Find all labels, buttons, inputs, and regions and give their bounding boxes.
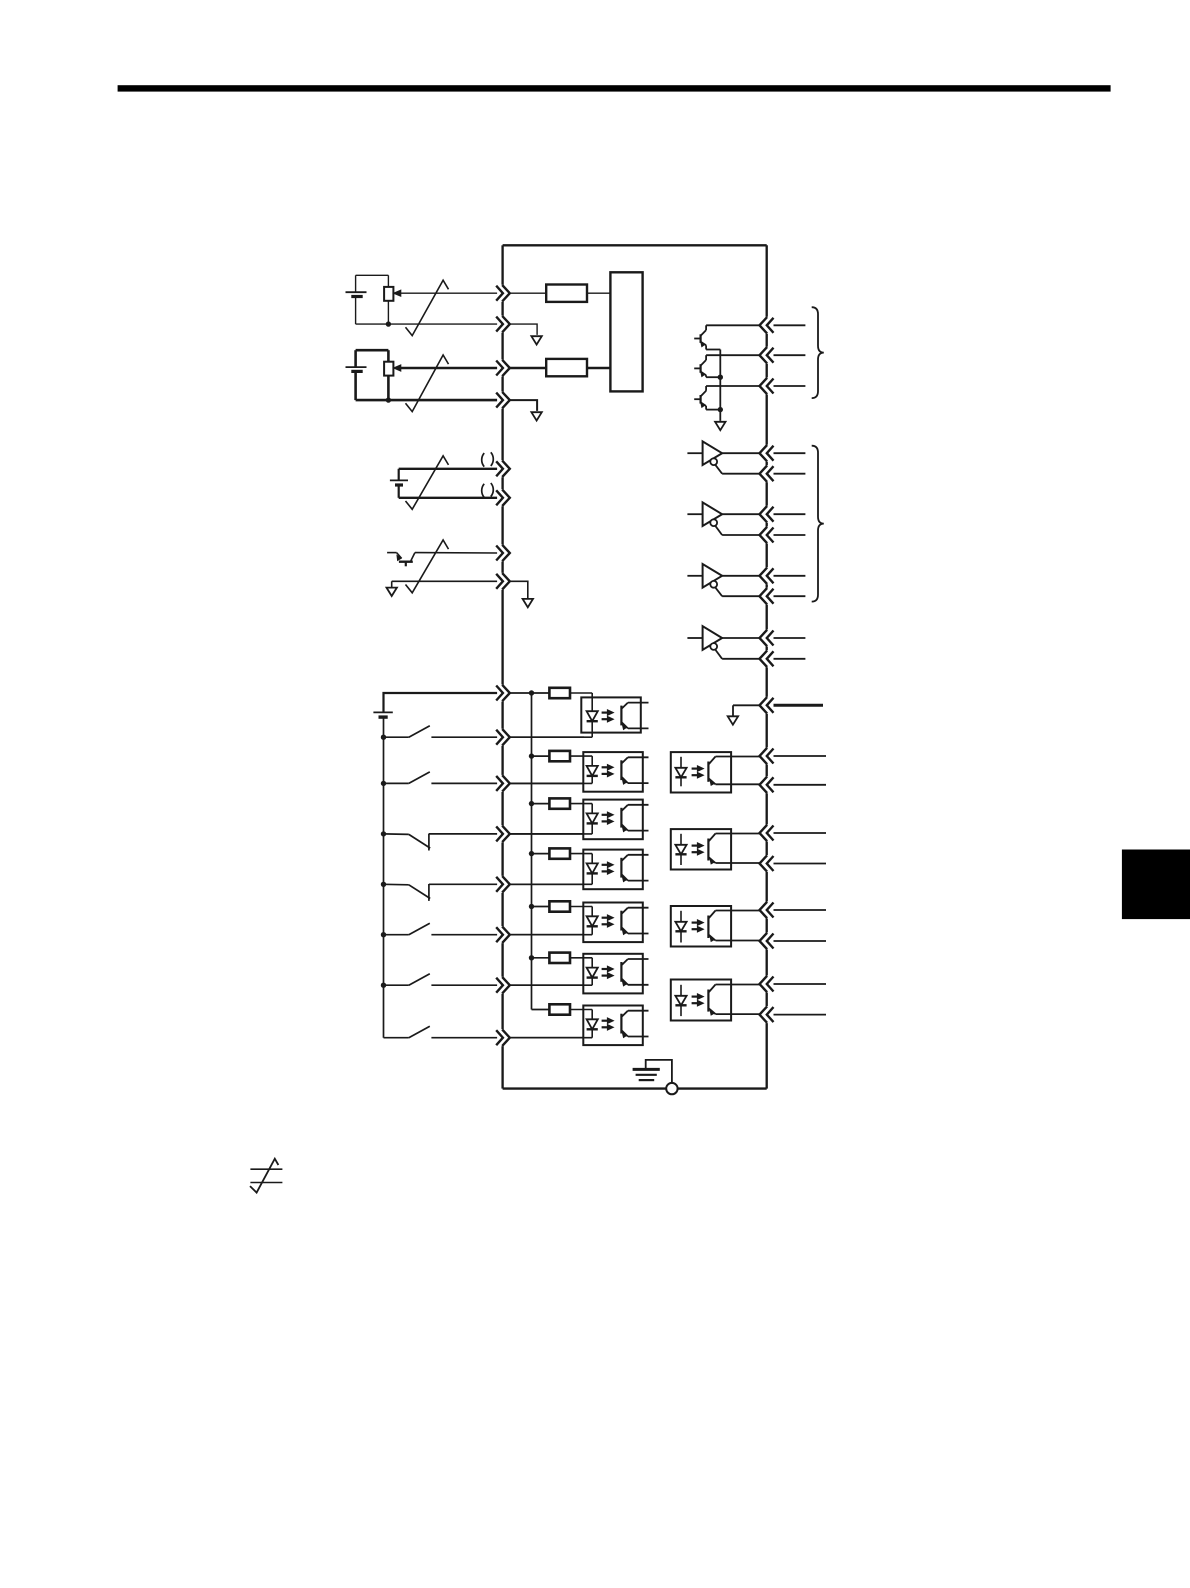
photocoupler PC6 (input isolator row 6) bbox=[510, 954, 649, 994]
wire SG to signal ground bbox=[510, 324, 537, 335]
servo amplifier box top edge bbox=[503, 244, 767, 246]
wire Q2 collector to pin bbox=[706, 354, 760, 356]
pin number parentheses (/PULS) bbox=[482, 483, 494, 497]
wire switch row 3 to photocoupler cathode bbox=[510, 833, 584, 835]
resistor R1 (input row 1) bbox=[549, 688, 570, 698]
pin PCO bbox=[760, 568, 774, 584]
pin SG (speed ref return) bbox=[496, 316, 510, 332]
junction dot on +24V bus (/P-CON switch) bbox=[381, 781, 386, 786]
PE terminal circle on box bottom edge bbox=[666, 1083, 677, 1094]
wire /V-CMP- external bbox=[774, 1014, 827, 1016]
battery and potentiometer (speed reference input) bbox=[346, 275, 498, 327]
battery and potentiometer (torque reference input) bbox=[346, 350, 498, 403]
line driver U4 (PSO//PSO) bbox=[687, 626, 760, 659]
wire ALO2 external bbox=[774, 354, 806, 356]
junction dot on +24V rail (row 5) bbox=[529, 904, 534, 909]
wire SIGN- bbox=[392, 580, 497, 582]
wire switch row 4 to photocoupler cathode bbox=[510, 883, 584, 885]
photocoupler PC10 (output isolator ALM) bbox=[671, 906, 760, 947]
wire ALM- external bbox=[774, 940, 827, 942]
wire SIGN+ bbox=[415, 552, 497, 554]
photocoupler PC8 (output isolator /TGON) bbox=[671, 752, 760, 792]
pin /ALM-RST bbox=[496, 927, 510, 943]
pin /N-CL bbox=[496, 1030, 510, 1046]
N-OT switch (b-contact) bbox=[384, 884, 498, 901]
wire rail to resistor row 3 bbox=[532, 803, 550, 805]
junction dot (emitter bus ALO2) bbox=[718, 375, 723, 380]
wire +24VIN external bbox=[384, 693, 498, 712]
page top rule bbox=[118, 85, 1111, 91]
pin /S-ON bbox=[496, 729, 510, 745]
/S-ON switch bbox=[384, 726, 498, 738]
wire /PCO external bbox=[774, 595, 806, 597]
pin /V-CMP- bbox=[760, 1006, 774, 1022]
junction dot on +24V bus (P-OT switch (b-contact)) bbox=[381, 831, 386, 836]
resistor R3 (input row 3) bbox=[549, 798, 570, 808]
pin /V-CMP+ bbox=[760, 976, 774, 992]
pin +24VIN bbox=[496, 685, 510, 701]
battery (position pulse source) bbox=[390, 469, 408, 498]
pin /SIGN bbox=[496, 573, 510, 589]
pin number parentheses (PULS) bbox=[482, 452, 494, 466]
signal-ground arrow (torque ref) bbox=[531, 412, 541, 420]
wire /TGON+ external bbox=[774, 755, 827, 757]
resistor R6 (input row 6) bbox=[549, 953, 570, 963]
pin SIGN bbox=[496, 545, 510, 561]
wire resistor to A/D bbox=[587, 367, 610, 370]
pin SG (output common) bbox=[760, 697, 774, 713]
photocoupler PC3 (input isolator row 3) bbox=[510, 800, 649, 840]
twisted-pair symbol (torque reference) bbox=[406, 355, 449, 412]
wire switch row 1 to photocoupler cathode bbox=[510, 736, 584, 738]
pin /TGON- bbox=[760, 777, 774, 793]
photocoupler PC1 (input isolator row 1) bbox=[510, 693, 649, 737]
servo amplifier box left edge (CN1 pin column) bbox=[501, 245, 503, 1088]
+24V internal rail bbox=[531, 693, 533, 1010]
wire ALM+ external bbox=[774, 909, 827, 911]
wire Q1 collector to pin bbox=[706, 324, 760, 326]
resistor R4 (input row 4) bbox=[549, 848, 570, 858]
pin PSO bbox=[760, 630, 774, 646]
open-collector transistor (sign reference source) bbox=[387, 553, 415, 567]
wire /S-RDY- external bbox=[774, 863, 827, 865]
pin V-REF bbox=[496, 285, 510, 301]
wire switch row 7 to photocoupler cathode bbox=[510, 1037, 584, 1039]
ground arrow (sign source) bbox=[387, 581, 397, 596]
wire switch row 5 to photocoupler cathode bbox=[510, 934, 584, 936]
twisted-pair symbol (pulse reference) bbox=[406, 456, 449, 510]
pin ALO3 bbox=[760, 378, 774, 394]
resistor R7 (input row 7) bbox=[549, 1004, 570, 1014]
wire ALO3 external bbox=[774, 385, 806, 387]
wire SG internal to signal ground bbox=[733, 705, 760, 716]
wire /TGON- external bbox=[774, 784, 827, 786]
wire V-REF to input resistor bbox=[510, 292, 546, 294]
brace (encoder signal outputs) bbox=[812, 446, 824, 602]
resistor R2 (input row 2) bbox=[549, 751, 570, 761]
junction dot on +24V bus (/S-ON switch) bbox=[381, 735, 386, 740]
open-collector output transistor Q3 (ALO3) bbox=[694, 386, 720, 410]
chapter tab (solid block, right margin) bbox=[1122, 850, 1190, 920]
junction dot on +24V rail (row 4) bbox=[529, 851, 534, 856]
junction dot (+24V rail top) bbox=[529, 690, 534, 695]
/ALM-RST switch bbox=[384, 923, 498, 935]
line driver U1 (PAO//PAO) bbox=[687, 441, 760, 473]
wire Q3 collector to pin bbox=[706, 385, 760, 387]
pin /P-CON bbox=[496, 775, 510, 791]
pin ALO2 bbox=[760, 347, 774, 363]
battery +24V (external I/O supply) bbox=[373, 712, 392, 1037]
open-collector output transistor Q1 (ALO1) bbox=[694, 325, 720, 349]
P-OT switch (b-contact) bbox=[384, 834, 498, 851]
pin SG (torque ref return) bbox=[496, 392, 510, 408]
wire PULS- bbox=[399, 497, 497, 499]
wire /V-CMP+ external bbox=[774, 983, 827, 985]
wire SG to signal ground (torque) bbox=[510, 400, 537, 411]
A/D converter block bbox=[610, 272, 642, 391]
legend twisted-pair wires symbol bbox=[250, 1159, 282, 1193]
signal-ground arrow (sign) bbox=[523, 599, 533, 607]
pin /PULS bbox=[496, 490, 510, 506]
photocoupler PC2 (input isolator row 2) bbox=[510, 752, 649, 792]
wire PSO external bbox=[774, 637, 806, 639]
/N-CL switch bbox=[384, 1026, 498, 1038]
pin /PAO bbox=[760, 466, 774, 482]
wire /PSO external bbox=[774, 658, 806, 660]
servo amplifier box right edge (CN1 pin column) bbox=[766, 245, 768, 1088]
pin ALM+ bbox=[760, 902, 774, 918]
wire PBO external bbox=[774, 513, 806, 515]
resistor (V-REF input) bbox=[546, 285, 587, 302]
wire +24VIN to first resistor bbox=[510, 692, 550, 694]
pin /PSO bbox=[760, 651, 774, 667]
junction dot on +24V rail (row 6) bbox=[529, 955, 534, 960]
photocoupler PC11 (output isolator /V-CMP) bbox=[671, 980, 760, 1021]
photocoupler PC9 (output isolator /S-RDY) bbox=[671, 829, 760, 869]
pin PBO bbox=[760, 506, 774, 522]
wire T-REF to input resistor bbox=[510, 367, 546, 370]
wire rail to resistor row 6 bbox=[532, 957, 550, 959]
wire switch row 2 to photocoupler cathode bbox=[510, 782, 584, 784]
wire SG external bbox=[774, 704, 824, 707]
pin PAO bbox=[760, 445, 774, 461]
photocoupler PC7 (input isolator row 7) bbox=[510, 1006, 649, 1046]
junction dot on +24V rail (row 2) bbox=[529, 753, 534, 758]
emitter common bus bbox=[719, 350, 721, 421]
wire PAO external bbox=[774, 452, 806, 454]
wire /PBO external bbox=[774, 534, 806, 536]
pin T-REF bbox=[496, 360, 510, 376]
twisted-pair symbol (speed reference) bbox=[406, 280, 449, 335]
junction dot on +24V bus (/P-CL switch) bbox=[381, 983, 386, 988]
wire ALO1 external bbox=[774, 324, 806, 326]
brace (alarm code outputs) bbox=[812, 307, 824, 398]
pin P-OT bbox=[496, 826, 510, 842]
/P-CON switch bbox=[384, 772, 498, 784]
line driver U3 (PCO//PCO) bbox=[687, 564, 760, 596]
resistor (T-REF input) bbox=[546, 359, 587, 376]
photocoupler PC4 (input isolator row 4) bbox=[510, 850, 649, 890]
signal-ground arrow (alarm code common) bbox=[715, 422, 725, 430]
pin /TGON+ bbox=[760, 748, 774, 764]
wire rail to resistor row 4 bbox=[532, 853, 550, 855]
open-collector output transistor Q2 (ALO2) bbox=[694, 355, 720, 377]
wire rail to resistor row 7 bbox=[532, 1009, 550, 1011]
pin ALO1 bbox=[760, 317, 774, 333]
junction dot on +24V bus (/ALM-RST switch) bbox=[381, 932, 386, 937]
wire /S-RDY+ external bbox=[774, 832, 827, 834]
photocoupler PC5 (input isolator row 5) bbox=[510, 903, 649, 943]
wire /PAO external bbox=[774, 473, 806, 475]
pin N-OT bbox=[496, 876, 510, 892]
pin /PBO bbox=[760, 527, 774, 543]
servo amplifier box bottom edge bbox=[503, 1087, 767, 1089]
resistor R5 (input row 5) bbox=[549, 901, 570, 911]
junction dot on +24V bus (N-OT switch (b-contact)) bbox=[381, 882, 386, 887]
wire PULS+ bbox=[399, 468, 497, 470]
pin ALM- bbox=[760, 933, 774, 949]
pin /S-RDY+ bbox=[760, 825, 774, 841]
pin /P-CL bbox=[496, 977, 510, 993]
twisted-pair symbol (sign reference) bbox=[406, 540, 449, 593]
junction dot on +24V rail (row 3) bbox=[529, 801, 534, 806]
junction dot (emitter bus ALO3) bbox=[718, 407, 723, 412]
wire rail to resistor row 5 bbox=[532, 906, 550, 908]
/P-CL switch bbox=[384, 974, 498, 986]
line driver U2 (PBO//PBO) bbox=[687, 502, 760, 535]
signal-ground arrow (SG) bbox=[728, 716, 738, 724]
wire /SIGN to signal ground bbox=[510, 581, 528, 599]
signal-ground arrow (speed ref) bbox=[531, 336, 541, 344]
frame-ground symbol (PE) bbox=[633, 1060, 672, 1084]
wire rail to resistor row 2 bbox=[532, 755, 550, 757]
pin /PCO bbox=[760, 588, 774, 604]
wire PCO external bbox=[774, 575, 806, 577]
wire switch row 6 to photocoupler cathode bbox=[510, 984, 584, 986]
pin /S-RDY- bbox=[760, 855, 774, 871]
pin PULS bbox=[496, 461, 510, 477]
wire resistor to A/D bbox=[587, 292, 610, 294]
